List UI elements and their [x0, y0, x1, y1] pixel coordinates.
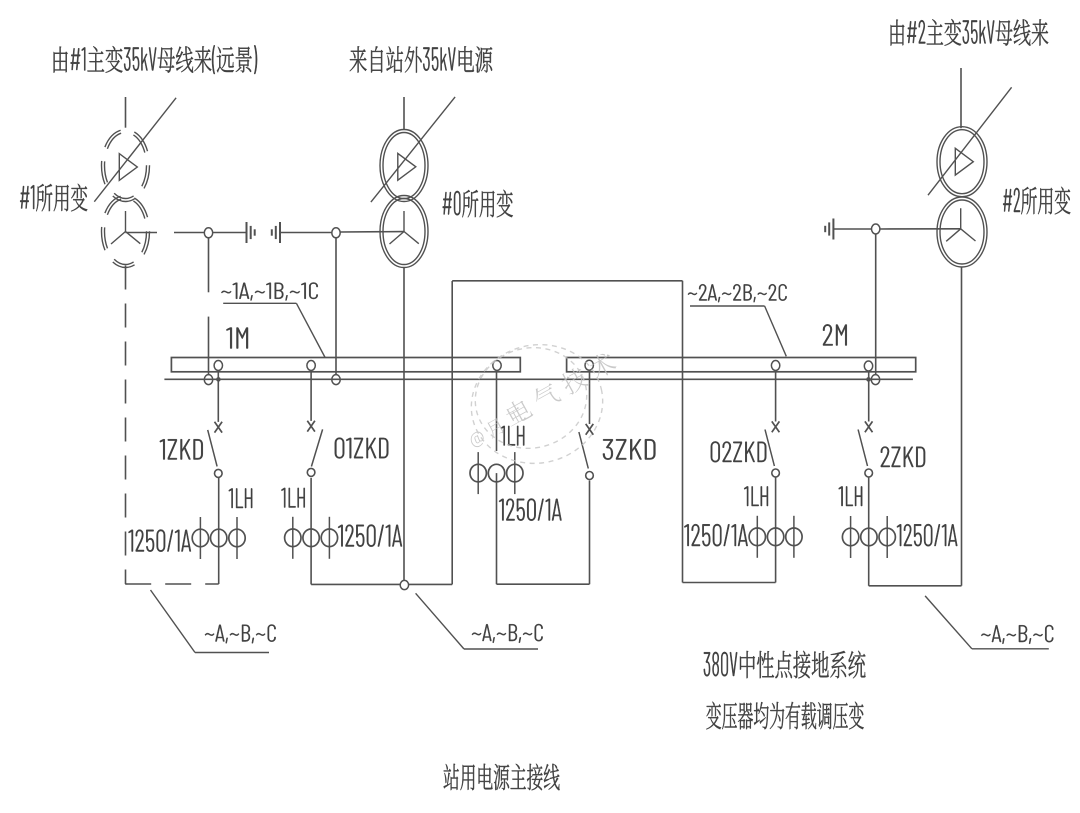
wire: LV lead of T2 down right side	[961, 267, 963, 586]
CT 1LH group on feeder 01ZKD	[292, 517, 294, 559]
wire: node A2 drop to thin bus	[335, 238, 337, 375]
label: 1LH (tie)	[501, 426, 524, 446]
label: 1M bus name	[226, 328, 248, 349]
net label: 由#1主变35kV母线来(远景) incoming from #1 main transformer 35kV bus (future)	[54, 45, 258, 74]
node circle: 3ZKD tap on bus 2M	[585, 360, 593, 370]
label: 2ZKD	[881, 447, 925, 468]
transformer T0 #0所用变 windings	[380, 130, 428, 202]
label: 1ZKD	[160, 439, 203, 459]
net label: 由#2主变35kV母线来 incoming from #2 main transformer 35kV bus	[891, 19, 1049, 46]
label: #1所用变	[20, 184, 87, 212]
label: 1250/1A (1ZKD)	[129, 530, 191, 552]
transformer T2 on-load tap-changer arrow	[928, 87, 1012, 195]
wire: 3ZKD breaker to bottom	[589, 481, 591, 585]
wire: dashed HV lead of transformer T1	[125, 97, 127, 128]
wire: tie feeder CT row to bottom	[496, 473, 498, 584]
wire: HV lead of transformer T0	[403, 97, 405, 130]
wire: ground G3 to node A3	[833, 228, 871, 230]
wire: LV lead of T0 down to junction J0	[403, 268, 405, 582]
net leader ~A,~B,~C (middle)	[416, 593, 464, 649]
label: 1250/1A (tie)	[499, 499, 561, 521]
wire: link T1 wye to node A1 (with break)	[126, 232, 158, 234]
label: 1250/1A (02ZKD)	[684, 524, 747, 546]
wire: 01ZKD feeder bus to breaker	[310, 371, 312, 421]
label: 1LH (2ZKD)	[839, 486, 863, 506]
neutral/thin bus line	[164, 378, 913, 380]
transformer T1 #1所用变 windings (dashed future)	[102, 130, 150, 202]
wire: node A1 drop to neutral bus (lower)	[208, 317, 210, 375]
wire: link node A1 to ground G1	[213, 232, 247, 234]
wire: loop left vertical	[451, 281, 453, 584]
wire: 3ZKD bus to breaker	[589, 371, 591, 425]
node circle: feeder 01ZKD tap on bus 1M	[307, 361, 315, 371]
wire: 1ZKD feeder bus to breaker	[217, 371, 219, 422]
note: 变压器均为有载调压变	[706, 702, 863, 730]
label: 1LH (01ZKD)	[281, 488, 304, 508]
node circle: feeder 2ZKD tap on bus 2M	[864, 361, 872, 371]
wire: bottom link 2ZKD to T2 lead	[869, 585, 962, 587]
node J0 junction circle on T0 lead	[400, 580, 408, 589]
CT 1LH group on bus tie	[477, 452, 479, 494]
wire: HV lead of transformer T2	[960, 68, 962, 128]
transformer T2 delta winding symbol	[955, 148, 973, 175]
node A1 junction circle	[204, 228, 212, 238]
label: 2M bus name	[823, 324, 847, 345]
net leader ~A,~B,~C (right)	[925, 596, 972, 649]
transformer T0 delta winding symbol	[398, 153, 416, 180]
net label ~2A,~2B,~2C with leader	[688, 284, 787, 302]
transformer T2 wye winding symbol	[946, 208, 975, 241]
transformer T1 wye winding symbol	[111, 211, 140, 244]
net leader ~A,~B,~C (left)	[151, 590, 196, 653]
label: 1LH (02ZKD)	[744, 486, 768, 506]
junction dot: 2ZKD feeder on thin bus	[866, 377, 871, 382]
ground G3 (right link earth, facing left)	[832, 219, 834, 240]
label: 1250/1A (2ZKD)	[897, 524, 957, 546]
wire: node A1 drop to neutral bus (upper)	[208, 238, 210, 292]
wire: dashed bottom link T1 to 1ZKD	[125, 583, 219, 585]
transformer T0 on-load tap-changer arrow	[371, 97, 455, 202]
wire: node A3 to transformer T2 wye	[880, 228, 961, 230]
note: 380V中性点接地系统	[704, 651, 866, 679]
label: 02ZKD	[711, 441, 767, 462]
label: 1250/1A (01ZKD)	[338, 525, 402, 547]
transformer T2 #2所用变 windings	[937, 127, 987, 197]
node N2 circle on thin bus	[332, 375, 340, 385]
label: #0所用变	[443, 190, 513, 218]
bus 2M bar	[567, 358, 916, 372]
watermark (decorative)	[459, 332, 618, 477]
title: 站用电源主接线	[444, 764, 560, 791]
ground G1 (left link earth, facing right)	[246, 222, 248, 243]
breaker 02ZKD (X mark, blade, circle)	[772, 421, 780, 432]
breaker 3ZKD (X mark, blade, circle)	[586, 424, 594, 435]
wire: loop right to 02ZKD bottom	[683, 582, 776, 584]
CT 1LH group on feeder 1ZKD	[199, 517, 201, 559]
node circle: feeder 1ZKD tap on bus 1M	[214, 361, 222, 371]
breaker 2ZKD (X mark, blade, circle)	[865, 421, 873, 432]
wire: tie feeder bus to CT row	[496, 371, 498, 452]
wire: dashed LV lead of T1 down to feeder row	[125, 266, 127, 585]
wire: tie bottom horizontal	[497, 583, 590, 585]
wire: 01ZKD breaker to bottom row	[310, 478, 312, 585]
wire: 2ZKD breaker to bottom	[868, 478, 870, 586]
node A3 junction circle	[872, 224, 880, 234]
wire: 02ZKD breaker to bottom	[775, 478, 777, 583]
wire: 2ZKD feeder bus to breaker	[868, 371, 870, 422]
junction dot: 1ZKD feeder on thin bus	[216, 377, 221, 382]
transformer T1 delta winding symbol	[119, 154, 137, 181]
wire: ground G2 to node A2	[280, 232, 332, 234]
label: #2所用变	[1003, 187, 1070, 215]
wire: node A2 to transformer T0 wye	[341, 231, 405, 233]
net label: 来自站外35kV电源 incoming from off-site 35kV source	[350, 46, 493, 73]
breaker 1ZKD (X mark, blade, circle)	[215, 422, 223, 433]
node N1 circle on thin bus	[204, 375, 212, 385]
wire: node A3 drop to thin bus	[875, 234, 877, 375]
wire: 1ZKD breaker to CT row	[218, 477, 220, 584]
node A2 junction circle	[332, 228, 340, 238]
breaker 01ZKD (X mark, blade, circle)	[307, 421, 315, 432]
ground G2 (right of gap, facing left)	[279, 222, 281, 243]
wire: loop right vertical	[682, 281, 684, 583]
transformer T0 wye winding symbol	[390, 211, 419, 244]
wire: 02ZKD feeder bus to breaker	[775, 371, 777, 422]
CT 1LH group on feeder 2ZKD	[850, 516, 852, 558]
node circle: tie CT feeder tap on bus 1M	[493, 361, 501, 371]
transformer T1 on-load tap-changer arrow	[94, 98, 176, 202]
node N3 circle on thin bus	[871, 375, 879, 385]
net label ~1A,~1B,~1C with leader	[221, 283, 318, 301]
CT 1LH group on feeder 02ZKD	[756, 516, 758, 558]
wire: bottom link 01ZKD to loop left	[311, 583, 400, 585]
label: 1LH (1ZKD)	[229, 488, 252, 508]
bus 1M bar	[171, 358, 520, 372]
node circle: feeder 02ZKD tap on bus 2M	[771, 361, 779, 371]
label: 01ZKD	[335, 438, 389, 459]
label: 3ZKD	[603, 439, 656, 460]
wire: bottom link J0 to loop left vertical	[409, 583, 452, 585]
wire: loop top horizontal	[452, 280, 682, 282]
